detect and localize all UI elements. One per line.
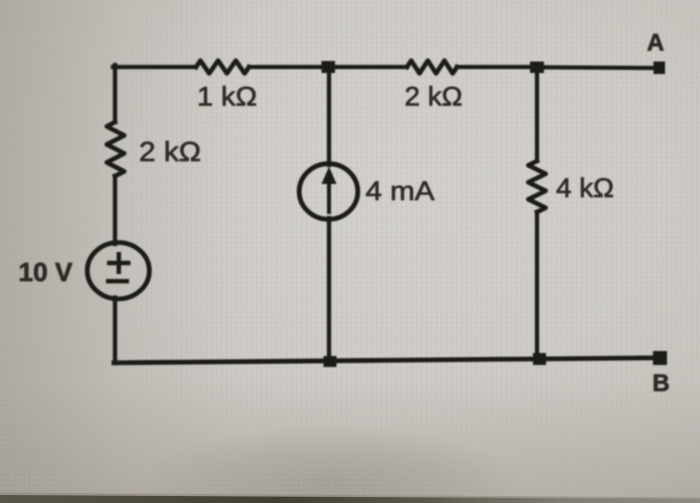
resistor 2 kOhm (left) zigzag xyxy=(107,122,124,176)
svg-text:2 kΩ: 2 kΩ xyxy=(139,136,201,167)
terminal square A xyxy=(654,62,666,75)
svg-text:4 kΩ: 4 kΩ xyxy=(556,173,614,203)
svg-text:B: B xyxy=(652,370,669,397)
junction node: top middle xyxy=(322,61,336,73)
polarity minus sign of voltage source xyxy=(106,279,129,283)
svg-text:2 kΩ: 2 kΩ xyxy=(405,82,463,112)
wire: top middle segment xyxy=(249,65,407,69)
polarity plus sign of voltage source xyxy=(107,252,130,274)
junction node: bottom right xyxy=(533,353,546,365)
wire: bottom horizontal xyxy=(114,358,660,363)
wire: top-left horizontal segment xyxy=(113,65,196,69)
wire: junction to terminal A xyxy=(537,65,655,70)
wire: left vertical upper xyxy=(113,65,117,122)
junction node: bottom middle xyxy=(324,356,337,367)
wire: middle branch upper (junction to current source) xyxy=(327,67,331,165)
resistor 2 kOhm (top) zigzag xyxy=(407,61,457,74)
svg-text:4 mA: 4 mA xyxy=(366,176,435,206)
voltage source 10 V circle xyxy=(87,243,149,299)
wire: right branch lower xyxy=(535,212,539,360)
wire: left vertical between resistor and source xyxy=(113,176,117,244)
current source 4 mA circle xyxy=(299,164,358,220)
wire: middle branch lower xyxy=(327,218,331,361)
current source arrow xyxy=(322,167,337,215)
wire: right branch upper xyxy=(535,67,539,161)
resistor 1 kOhm zigzag xyxy=(196,61,249,74)
svg-text:10 V: 10 V xyxy=(19,259,73,287)
wire: top right segment to junction xyxy=(457,65,537,69)
resistor 4 kOhm zigzag xyxy=(528,161,545,212)
terminal square B xyxy=(653,351,667,365)
svg-text:1 kΩ: 1 kΩ xyxy=(197,82,257,112)
svg-text:A: A xyxy=(647,30,664,57)
junction node: top right xyxy=(530,62,544,74)
wire: left vertical below source xyxy=(113,298,117,364)
